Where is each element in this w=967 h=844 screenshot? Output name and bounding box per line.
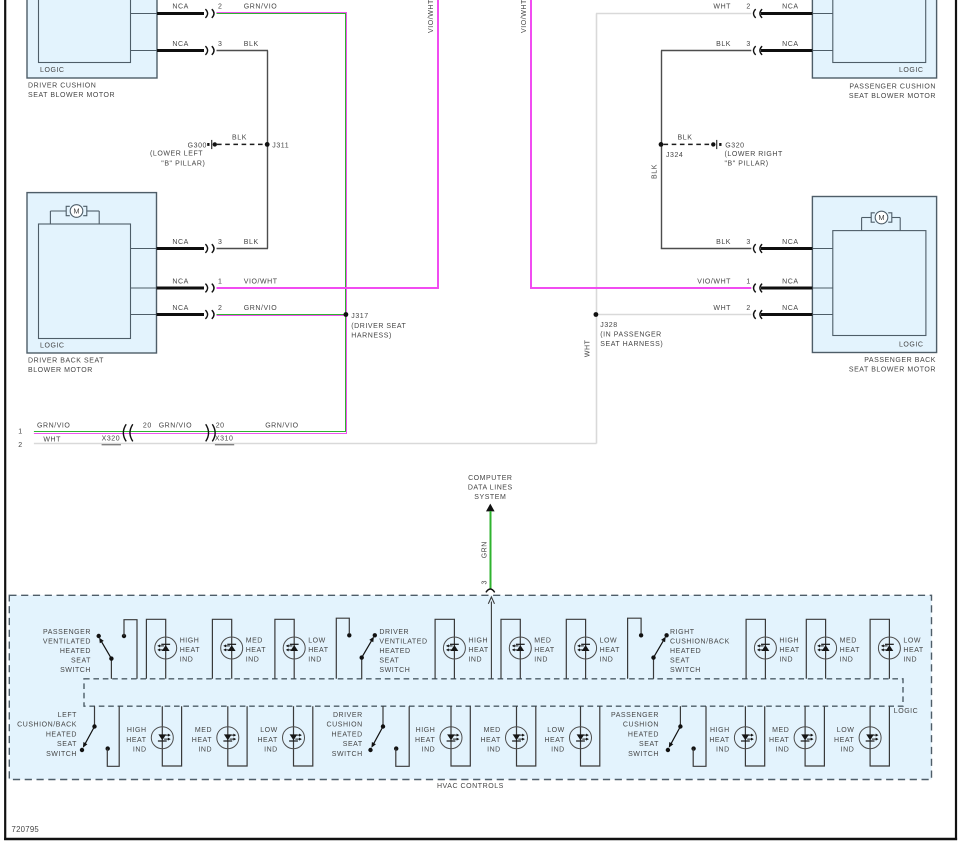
svg-text:3: 3 (746, 41, 750, 48)
svg-text:LOGIC: LOGIC (40, 342, 65, 349)
passenger back seat blower motor U4 box (812, 197, 936, 374)
svg-text:MED: MED (772, 727, 789, 734)
svg-text:LOW: LOW (837, 727, 855, 734)
svg-text:SWITCH: SWITCH (46, 751, 77, 758)
svg-text:20: 20 (143, 422, 152, 429)
wire 1 GRN/VIO bottom (18, 422, 347, 435)
svg-text:GRN: GRN (482, 541, 489, 558)
svg-text:3: 3 (482, 580, 489, 584)
svg-text:J317: J317 (351, 313, 368, 320)
svg-text:"B" PILLAR): "B" PILLAR) (161, 161, 205, 168)
U1 pin 2 stub wire NCA (131, 4, 205, 14)
svg-text:LOGIC: LOGIC (40, 67, 65, 74)
connector at U4 pin 1 (746, 278, 762, 292)
svg-text:SWITCH: SWITCH (379, 667, 410, 674)
svg-text:HARNESS): HARNESS) (351, 333, 392, 340)
svg-text:HEAT: HEAT (600, 647, 621, 654)
connector at U3 pin 3 (746, 41, 762, 55)
svg-text:HEATED: HEATED (628, 731, 659, 738)
svg-text:J311: J311 (272, 143, 289, 150)
inline connector X320 (102, 424, 133, 445)
svg-text:1: 1 (18, 428, 22, 435)
wire BLK from U1 pin 3 (217, 41, 269, 51)
svg-text:SEAT: SEAT (379, 658, 399, 665)
svg-text:3: 3 (218, 239, 222, 246)
LED high heat ind B4 (415, 706, 470, 766)
wire GRN/VIO from U2 pin 2 (217, 305, 347, 316)
LED med heat ind T8 (806, 619, 860, 679)
svg-text:IND: IND (840, 657, 854, 664)
svg-text:IND: IND (246, 657, 260, 664)
wire GRN to HVAC (482, 511, 491, 589)
splice J317 (344, 312, 407, 340)
svg-text:HEAT: HEAT (903, 647, 924, 654)
svg-text:HEAT: HEAT (468, 647, 489, 654)
wire BLK to U4 pin 3 (661, 239, 752, 249)
svg-text:GRN/VIO: GRN/VIO (244, 4, 277, 11)
svg-text:SEAT BLOWER MOTOR: SEAT BLOWER MOTOR (849, 93, 936, 100)
LED low heat ind B9 (834, 706, 889, 766)
motor M in U2 (50, 205, 99, 224)
svg-text:PASSENGER BACK: PASSENGER BACK (864, 357, 936, 364)
U2 pin 2 stub wire NCA (131, 305, 205, 315)
LED low heat ind B3 (257, 706, 312, 766)
svg-text:HEAT: HEAT (834, 737, 855, 744)
svg-text:IND: IND (716, 746, 730, 753)
svg-text:HEATED: HEATED (46, 731, 77, 738)
svg-text:LOGIC: LOGIC (899, 67, 924, 74)
svg-text:DRIVER BACK SEAT: DRIVER BACK SEAT (28, 357, 104, 364)
LED low heat ind T9 (870, 619, 924, 679)
svg-text:IND: IND (422, 746, 436, 753)
svg-text:VENTILATED: VENTILATED (379, 638, 427, 645)
switch passenger cushion heated seat (611, 706, 706, 766)
svg-text:WHT: WHT (713, 305, 731, 312)
svg-text:HIGH: HIGH (468, 637, 488, 644)
svg-text:HEAT: HEAT (257, 737, 278, 744)
svg-text:J324: J324 (666, 152, 683, 159)
connector at U3 pin 2 (746, 4, 762, 18)
svg-text:1: 1 (218, 278, 222, 285)
svg-text:BLK: BLK (232, 134, 247, 141)
LED med heat ind B5 (480, 706, 535, 766)
svg-text:SEAT BLOWER MOTOR: SEAT BLOWER MOTOR (849, 367, 936, 374)
svg-text:IND: IND (551, 746, 565, 753)
svg-text:G320: G320 (725, 143, 744, 150)
svg-text:BLK: BLK (244, 239, 259, 246)
wire GRN/VIO from U1 pin 2 (217, 4, 347, 14)
svg-text:IND: IND (468, 657, 482, 664)
svg-text:SWITCH: SWITCH (628, 751, 659, 758)
svg-text:3: 3 (746, 239, 750, 246)
svg-text:VIO/WHT: VIO/WHT (244, 278, 278, 285)
svg-text:RIGHT: RIGHT (670, 629, 695, 636)
svg-text:X320: X320 (102, 436, 121, 443)
svg-text:SWITCH: SWITCH (670, 667, 701, 674)
svg-text:720795: 720795 (12, 825, 40, 834)
U2 pin 1 stub wire NCA (131, 278, 205, 288)
svg-text:PASSENGER: PASSENGER (43, 629, 91, 636)
svg-text:HIGH: HIGH (416, 727, 436, 734)
svg-text:IND: IND (180, 657, 194, 664)
svg-text:CUSHION: CUSHION (327, 722, 363, 729)
svg-text:DRIVER CUSHION: DRIVER CUSHION (28, 83, 96, 90)
LED low heat ind T3 (275, 619, 329, 679)
ground wire dashed G300 to J311 (217, 134, 265, 144)
LED high heat ind T4 (435, 619, 489, 679)
svg-text:VIO/WHT: VIO/WHT (697, 278, 731, 285)
svg-text:IND: IND (841, 746, 855, 753)
svg-text:2: 2 (218, 305, 222, 312)
svg-text:J328: J328 (600, 322, 617, 329)
svg-text:HEAT: HEAT (769, 737, 790, 744)
svg-text:VENTILATED: VENTILATED (43, 639, 91, 646)
U3 pin 3 stub wire NCA (761, 41, 833, 51)
svg-text:SEAT: SEAT (71, 657, 91, 664)
switch right cushion-back heated seat (628, 618, 730, 679)
splice J311 (265, 142, 289, 150)
svg-text:NCA: NCA (782, 41, 798, 48)
LED med heat ind B2 (192, 706, 247, 766)
LED high heat ind T7 (746, 619, 800, 679)
svg-text:MED: MED (840, 637, 857, 644)
svg-text:HEATED: HEATED (60, 648, 91, 655)
svg-text:HEAT: HEAT (308, 647, 329, 654)
svg-text:GRN/VIO: GRN/VIO (244, 305, 277, 312)
svg-text:GRN/VIO: GRN/VIO (37, 422, 70, 429)
svg-text:LOGIC: LOGIC (899, 341, 924, 348)
U4 pin 3 stub wire NCA (761, 239, 833, 249)
LED low heat ind T6 (566, 619, 620, 679)
svg-text:IND: IND (534, 657, 548, 664)
svg-text:20: 20 (216, 422, 225, 429)
LED med heat ind T2 (212, 619, 266, 679)
svg-text:DATA LINES: DATA LINES (468, 485, 513, 492)
wire VIO/WHT vertical right (521, 0, 531, 289)
border frame bottom (4, 838, 957, 840)
U3 pin 2 stub wire NCA (761, 4, 833, 14)
wire VIO/WHT to U4 pin 1 (530, 278, 751, 288)
wire WHT to U4 pin 2 (596, 305, 751, 315)
svg-text:LOW: LOW (600, 637, 618, 644)
svg-text:HEAT: HEAT (534, 647, 555, 654)
svg-text:SEAT BLOWER MOTOR: SEAT BLOWER MOTOR (28, 92, 115, 99)
svg-text:MED: MED (195, 727, 212, 734)
svg-text:SEAT: SEAT (639, 741, 659, 748)
svg-text:(IN PASSENGER: (IN PASSENGER (600, 332, 661, 339)
svg-text:NCA: NCA (172, 4, 188, 11)
svg-text:BLK: BLK (652, 164, 659, 179)
connector at U2 pin 1 (205, 278, 222, 292)
wire WHT to U3 pin 2 (596, 4, 751, 14)
wire WHT vertical through J328 (596, 14, 598, 444)
svg-text:MED: MED (534, 637, 551, 644)
svg-text:VIO/WHT: VIO/WHT (521, 0, 528, 33)
svg-text:BLOWER MOTOR: BLOWER MOTOR (28, 367, 93, 374)
svg-text:IND: IND (308, 657, 322, 664)
svg-text:HEATED: HEATED (332, 731, 363, 738)
svg-text:DRIVER: DRIVER (333, 712, 363, 719)
svg-text:VIO/WHT: VIO/WHT (428, 0, 435, 33)
U2 pin 3 stub wire NCA (131, 239, 205, 249)
connector at U1 pin 2 (205, 4, 222, 18)
LED high heat ind T1 (146, 619, 200, 679)
inline connector X310 (206, 424, 235, 445)
svg-text:NCA: NCA (782, 305, 798, 312)
wire to computer data lines inside HVAC (488, 597, 494, 679)
driver back seat blower motor U2 box (27, 193, 157, 374)
svg-text:GRN/VIO: GRN/VIO (159, 422, 192, 429)
U1 pin 3 stub wire NCA (131, 41, 205, 51)
svg-text:(DRIVER SEAT: (DRIVER SEAT (351, 323, 406, 330)
connector at U4 pin 2 (746, 305, 762, 319)
svg-text:M: M (878, 213, 884, 222)
svg-text:NCA: NCA (782, 278, 798, 285)
svg-text:GRN/VIO: GRN/VIO (265, 422, 298, 429)
wire 2 WHT bottom (18, 437, 596, 450)
svg-text:2: 2 (18, 442, 22, 449)
svg-text:HEATED: HEATED (379, 648, 410, 655)
svg-text:M: M (73, 207, 79, 216)
HVAC internal logic box (84, 679, 918, 715)
wire BLK vertical J324 (652, 51, 662, 249)
svg-text:X310: X310 (215, 436, 234, 443)
wire GRN/VIO vertical through J317 (346, 12, 347, 434)
LED high heat ind B7 (709, 706, 764, 766)
svg-text:PASSENGER CUSHION: PASSENGER CUSHION (849, 84, 936, 91)
svg-text:HEAT: HEAT (544, 737, 565, 744)
U4 pin 1 stub wire NCA (761, 278, 833, 288)
switch driver ventilated heated seat (336, 618, 427, 679)
svg-text:MED: MED (484, 727, 501, 734)
svg-text:NCA: NCA (172, 278, 188, 285)
svg-text:"B" PILLAR): "B" PILLAR) (725, 161, 769, 168)
svg-text:G300: G300 (188, 143, 207, 150)
ground G320 (711, 140, 783, 168)
svg-text:IND: IND (779, 657, 793, 664)
connector at U1 pin 3 (205, 41, 222, 55)
svg-text:SWITCH: SWITCH (332, 751, 363, 758)
ground G300 (150, 140, 217, 168)
svg-text:COMPUTER: COMPUTER (468, 475, 512, 482)
svg-text:IND: IND (487, 746, 501, 753)
connector at U4 pin 3 (746, 239, 762, 253)
svg-text:LOW: LOW (308, 637, 326, 644)
svg-text:LOW: LOW (260, 727, 278, 734)
svg-text:LOGIC: LOGIC (894, 708, 919, 715)
svg-text:IND: IND (600, 657, 614, 664)
svg-text:3: 3 (218, 41, 222, 48)
svg-text:NCA: NCA (172, 305, 188, 312)
svg-text:HEATED: HEATED (670, 648, 701, 655)
svg-text:LOW: LOW (903, 637, 921, 644)
LED low heat ind B6 (544, 706, 599, 766)
svg-text:NCA: NCA (782, 239, 798, 246)
svg-text:HEAT: HEAT (480, 737, 501, 744)
wire VIO/WHT from U2 pin 1 (217, 278, 440, 288)
svg-text:2: 2 (746, 305, 750, 312)
border frame right (955, 0, 957, 840)
label WHT rotated (585, 339, 592, 357)
svg-text:BLK: BLK (716, 239, 731, 246)
svg-text:2: 2 (218, 4, 222, 11)
svg-text:CUSHION: CUSHION (623, 722, 659, 729)
svg-text:1: 1 (746, 278, 750, 285)
svg-text:DRIVER: DRIVER (379, 629, 409, 636)
svg-text:HEAT: HEAT (840, 647, 861, 654)
svg-text:IND: IND (903, 657, 917, 664)
svg-text:IND: IND (133, 746, 147, 753)
svg-text:IND: IND (264, 746, 278, 753)
wire BLK from U2 pin 3 (217, 239, 269, 249)
svg-text:CUSHION/BACK: CUSHION/BACK (670, 638, 730, 645)
svg-text:BLK: BLK (716, 41, 731, 48)
svg-text:SEAT: SEAT (670, 658, 690, 665)
svg-text:WHT: WHT (713, 4, 731, 11)
svg-text:HVAC CONTROLS: HVAC CONTROLS (437, 783, 504, 790)
svg-text:2: 2 (746, 4, 750, 11)
HVAC CONTROLS box (9, 595, 931, 790)
svg-text:SEAT: SEAT (343, 741, 363, 748)
svg-text:HIGH: HIGH (180, 637, 200, 644)
splice J324 (659, 142, 684, 159)
passenger cushion seat blower motor U3 box (812, 0, 936, 100)
svg-text:SYSTEM: SYSTEM (474, 494, 506, 501)
svg-text:HEAT: HEAT (126, 737, 147, 744)
svg-text:HEAT: HEAT (246, 647, 267, 654)
svg-text:LEFT: LEFT (58, 712, 77, 719)
motor M in U4 (862, 211, 901, 230)
svg-text:WHT: WHT (585, 339, 592, 357)
connector at U2 pin 3 (205, 239, 222, 253)
U4 pin 2 stub wire NCA (761, 305, 833, 315)
svg-text:SWITCH: SWITCH (60, 667, 91, 674)
svg-text:HEAT: HEAT (192, 737, 213, 744)
computer data lines system arrow (468, 475, 513, 512)
svg-text:WHT: WHT (43, 437, 61, 444)
svg-text:(LOWER RIGHT: (LOWER RIGHT (725, 151, 783, 158)
switch left cushion-back heated seat (17, 706, 119, 766)
svg-text:CUSHION/BACK: CUSHION/BACK (17, 722, 77, 729)
svg-text:(LOWER LEFT: (LOWER LEFT (150, 150, 203, 157)
svg-text:BLK: BLK (244, 41, 259, 48)
svg-text:HIGH: HIGH (127, 727, 147, 734)
drawing number (12, 825, 40, 834)
svg-text:NCA: NCA (172, 41, 188, 48)
LED high heat ind B1 (126, 706, 181, 766)
connector at U2 pin 2 (205, 305, 222, 319)
connector at HVAC pin 3 (486, 589, 495, 592)
svg-text:SEAT: SEAT (57, 741, 77, 748)
svg-text:NCA: NCA (172, 239, 188, 246)
wire VIO/WHT vertical left (428, 0, 438, 289)
svg-text:HIGH: HIGH (779, 637, 799, 644)
svg-text:PASSENGER: PASSENGER (611, 712, 659, 719)
svg-text:NCA: NCA (782, 4, 798, 11)
wire BLK to U3 pin 3 (661, 41, 751, 51)
splice J328 (594, 312, 664, 348)
svg-text:HEAT: HEAT (415, 737, 436, 744)
LED med heat ind T5 (501, 619, 555, 679)
switch driver cushion heated seat (327, 706, 410, 766)
svg-text:IND: IND (776, 746, 790, 753)
border frame left (4, 0, 6, 840)
svg-text:LOW: LOW (547, 727, 565, 734)
wire BLK vertical J311 (267, 51, 269, 249)
LED med heat ind B8 (769, 706, 824, 766)
driver cushion seat blower motor U1 box (27, 0, 157, 99)
svg-text:IND: IND (198, 746, 212, 753)
svg-text:MED: MED (246, 637, 263, 644)
switch passenger ventilated heated seat (43, 620, 137, 679)
ground wire dashed J324 to G320 (664, 134, 712, 144)
svg-text:BLK: BLK (678, 134, 693, 141)
svg-text:HIGH: HIGH (710, 727, 730, 734)
svg-text:SEAT HARNESS): SEAT HARNESS) (600, 341, 663, 348)
svg-text:HEAT: HEAT (709, 737, 730, 744)
svg-text:HEAT: HEAT (180, 647, 201, 654)
svg-text:HEAT: HEAT (779, 647, 800, 654)
